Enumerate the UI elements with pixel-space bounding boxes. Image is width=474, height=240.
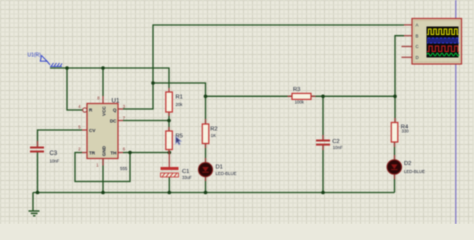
svg-text:100k: 100k [295, 99, 305, 104]
svg-text:C: C [416, 44, 419, 49]
svg-text:D: D [416, 55, 419, 60]
svg-text:D2: D2 [404, 161, 411, 167]
svg-text:GND: GND [102, 145, 107, 156]
svg-text:CV: CV [89, 128, 96, 133]
svg-text:A: A [416, 23, 419, 28]
svg-text:10nF: 10nF [50, 158, 60, 163]
svg-text:D1: D1 [216, 164, 223, 170]
svg-text:DC: DC [110, 118, 117, 123]
svg-text:330: 330 [402, 129, 410, 134]
svg-text:B: B [416, 33, 419, 38]
svg-text:R2: R2 [210, 127, 217, 133]
svg-text:1K: 1K [211, 133, 216, 138]
svg-text:LED-BLUE: LED-BLUE [404, 169, 425, 174]
svg-text:R3: R3 [293, 87, 300, 93]
svg-text:10nF: 10nF [333, 145, 343, 150]
svg-text:R1: R1 [176, 95, 183, 101]
svg-text:555: 555 [120, 166, 128, 171]
svg-text:VCC: VCC [102, 106, 107, 116]
svg-text:TR: TR [89, 151, 96, 156]
svg-text:C1: C1 [182, 169, 189, 175]
svg-text:U1: U1 [112, 98, 120, 105]
svg-text:20k: 20k [176, 102, 184, 107]
svg-text:TH: TH [110, 151, 117, 156]
svg-text:Q: Q [113, 108, 117, 113]
svg-text:U1(R): U1(R) [28, 53, 42, 59]
svg-text:C3: C3 [50, 151, 58, 157]
svg-text:LED-BLUE: LED-BLUE [216, 171, 237, 176]
svg-text:33uF: 33uF [182, 175, 192, 180]
